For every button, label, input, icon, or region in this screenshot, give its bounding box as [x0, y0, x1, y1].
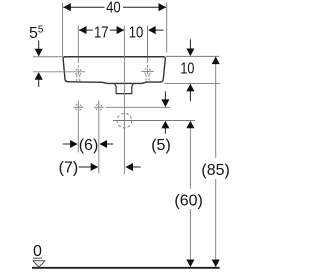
svg-text:(60): (60): [174, 192, 202, 209]
level zero triangle marker: [33, 261, 45, 267]
dimension 40: extension lines: [62, 3, 64, 57]
trap connection plane line: [113, 120, 195, 122]
svg-text:(6): (6): [79, 137, 99, 154]
svg-text:(7): (7): [59, 160, 79, 177]
trap connection dashed circle: [117, 113, 132, 128]
fixing hole cross right: [94, 104, 104, 110]
drain trap outlet: [114, 83, 133, 93]
tap hole cross right: [141, 57, 154, 81]
dimension 17/10: extension lines: [77, 26, 79, 57]
dimension (85): line with arrows: [215, 64, 217, 158]
dimension 17: line, arrows, label: [79, 29, 93, 31]
svg-text:(85): (85): [201, 162, 229, 179]
drain centre axis: [123, 26, 125, 175]
svg-text:17: 17: [94, 24, 109, 41]
dimension 40: line, arrows, label: [63, 6, 104, 8]
fixing hole plane line: [106, 106, 171, 108]
dimension 5.5: down arrow: [38, 41, 40, 50]
dimension (6): line, arrows, label: [63, 143, 71, 145]
level zero underline: [33, 257, 42, 259]
svg-text:(5): (5): [151, 137, 171, 154]
fixing hole axis right (B) below basin: [98, 100, 100, 173]
washbasin outline: [63, 57, 165, 84]
svg-text:55: 55: [29, 24, 44, 42]
right 10 dimension: top plane extension line: [166, 55, 220, 57]
svg-text:10: 10: [180, 61, 194, 78]
right 10 dimension: arrows and label: [189, 39, 191, 49]
dimension (60): line with arrows: [189, 128, 191, 189]
dimension 5.5: upper extension line: [33, 56, 63, 58]
dimension 5.5: up arrow: [35, 72, 43, 80]
dimension (5): down arrow: [164, 91, 166, 100]
svg-text:10: 10: [129, 24, 144, 41]
svg-text:0: 0: [33, 243, 42, 260]
dimension 5.5: lower extension line (through tap hole axis): [33, 71, 85, 73]
fixing hole axis left (A) below basin: [77, 100, 79, 152]
right 10 dimension: bottom plane extension line: [165, 82, 220, 84]
floor baseline: [32, 267, 220, 269]
tap hole cross left: [75, 57, 81, 81]
svg-text:40: 40: [106, 0, 121, 17]
fixing hole cross left: [74, 104, 84, 110]
dimension (5): up arrow: [161, 121, 169, 129]
